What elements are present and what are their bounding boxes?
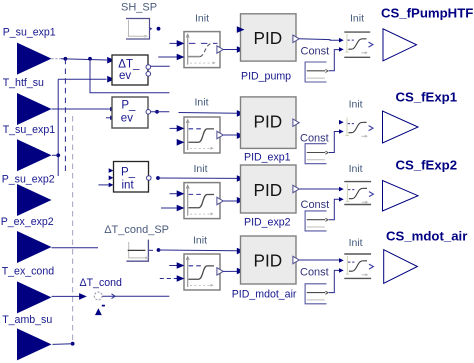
svg-text:Init: Init <box>194 163 208 175</box>
svg-text:P_su_exp1: P_su_exp1 <box>3 26 56 38</box>
svg-text:T_htf_su: T_htf_su <box>3 77 44 89</box>
svg-text:PID_pump: PID_pump <box>241 71 291 83</box>
svg-text:T_su_exp1: T_su_exp1 <box>3 124 56 136</box>
svg-text:Const: Const <box>301 199 330 211</box>
svg-text:P_: P_ <box>121 100 136 112</box>
svg-text:PID: PID <box>254 250 283 270</box>
svg-text:int: int <box>122 180 135 192</box>
svg-text:ΔT_: ΔT_ <box>118 59 140 71</box>
svg-text:Init: Init <box>195 96 209 108</box>
svg-text:T_amb_su: T_amb_su <box>2 314 52 326</box>
svg-text:Const: Const <box>300 133 329 145</box>
svg-text:PID: PID <box>254 112 283 132</box>
svg-text:Const: Const <box>300 267 329 279</box>
svg-text:P_su_exp2: P_su_exp2 <box>2 173 55 185</box>
svg-text:Const: Const <box>301 46 330 58</box>
svg-text:Init: Init <box>349 163 363 175</box>
svg-text:Init: Init <box>193 235 207 247</box>
svg-text:ΔT_cond_SP: ΔT_cond_SP <box>104 224 169 236</box>
svg-text:PID_mdot_air: PID_mdot_air <box>232 289 297 301</box>
svg-text:CS_fExp2: CS_fExp2 <box>396 158 458 173</box>
svg-text:CS_fExp1: CS_fExp1 <box>396 90 458 105</box>
svg-text:ev: ev <box>119 70 131 82</box>
svg-text:P_: P_ <box>121 167 136 179</box>
svg-text:PID: PID <box>254 28 283 48</box>
svg-text:SH_SP: SH_SP <box>121 1 157 13</box>
svg-text:Init: Init <box>350 13 364 25</box>
svg-text:CS_fPumpHTF: CS_fPumpHTF <box>381 5 473 20</box>
svg-text:CS_mdot_air: CS_mdot_air <box>386 229 467 244</box>
svg-text:PID: PID <box>254 180 283 200</box>
svg-text:Init: Init <box>195 13 209 25</box>
svg-text:ΔT_cond: ΔT_cond <box>80 277 123 289</box>
svg-text:PID_exp1: PID_exp1 <box>244 152 291 164</box>
svg-text:Init: Init <box>349 237 363 249</box>
svg-text:ev: ev <box>121 112 133 124</box>
svg-text:Init: Init <box>349 99 363 111</box>
svg-text:PID_exp2: PID_exp2 <box>244 217 291 229</box>
svg-text:T_ex_cond: T_ex_cond <box>2 266 55 278</box>
svg-text:P_ex_exp2: P_ex_exp2 <box>1 216 54 228</box>
